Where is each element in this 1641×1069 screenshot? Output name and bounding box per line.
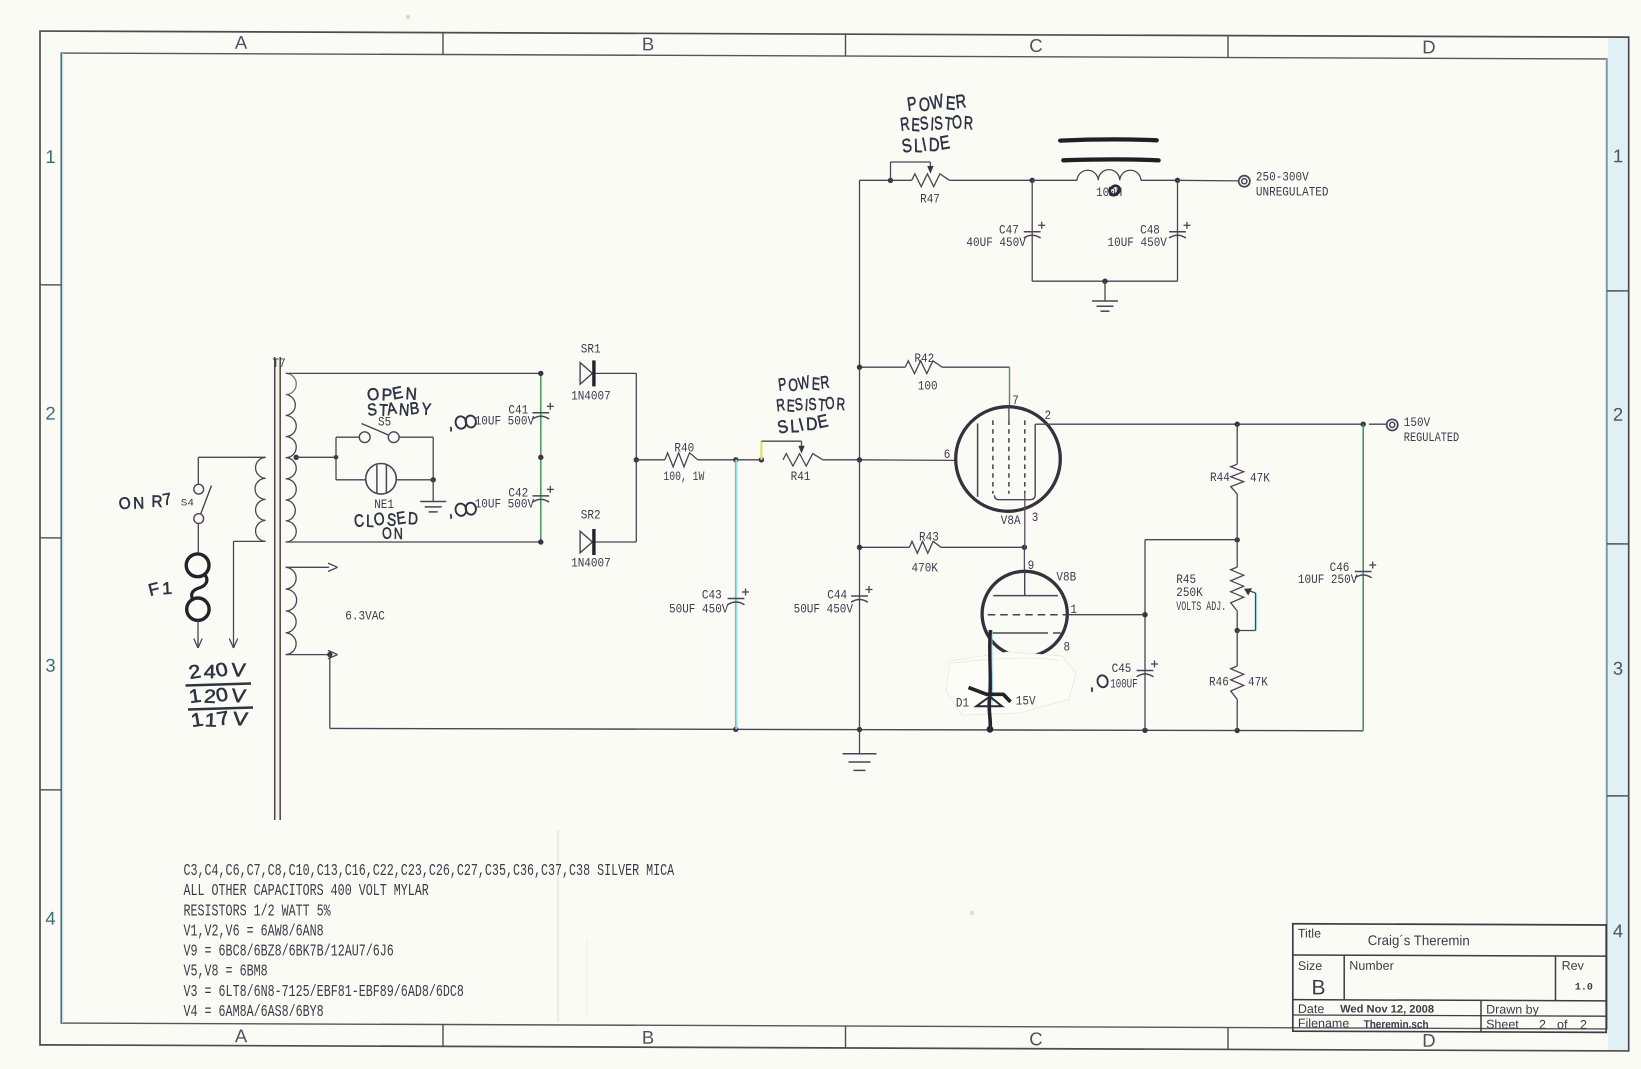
svg-text:100: 100 xyxy=(918,379,938,393)
svg-text:V3 = 6LT8/6N8-7125/EBF81-EBF89: V3 = 6LT8/6N8-7125/EBF81-EBF89/6AD8/6DC8 xyxy=(184,983,464,1002)
svg-text:1: 1 xyxy=(45,146,55,167)
svg-text:C45: C45 xyxy=(1112,662,1132,676)
svg-text:50UF 450V: 50UF 450V xyxy=(669,603,729,617)
svg-text:470K: 470K xyxy=(912,562,939,576)
svg-text:T7: T7 xyxy=(273,357,286,371)
svg-text:V9 = 6BC8/6BZ8/6BK7B/12AU7/6J6: V9 = 6BC8/6BZ8/6BK7B/12AU7/6J6 xyxy=(184,943,394,962)
svg-text:S4: S4 xyxy=(181,498,194,510)
svg-text:VOLTS ADJ.: VOLTS ADJ. xyxy=(1176,600,1226,614)
svg-text:C43: C43 xyxy=(702,589,722,603)
svg-text:7: 7 xyxy=(1012,394,1019,408)
svg-text:R40: R40 xyxy=(674,442,694,456)
svg-text:120V: 120V xyxy=(188,683,249,710)
svg-text:D1: D1 xyxy=(956,697,969,711)
svg-text:3: 3 xyxy=(45,655,55,676)
svg-text:8: 8 xyxy=(1064,641,1071,655)
svg-text:9: 9 xyxy=(1028,559,1035,573)
svg-text:B: B xyxy=(1312,976,1326,999)
svg-text:3: 3 xyxy=(1032,511,1039,525)
svg-text:A: A xyxy=(235,1025,248,1046)
svg-text:47K: 47K xyxy=(1250,472,1270,486)
svg-text:Craig´s Theremin: Craig´s Theremin xyxy=(1368,932,1470,948)
svg-text:C3,C4,C6,C7,C8,C10,C13,C16,C22: C3,C4,C6,C7,C8,C10,C13,C16,C22,C23,C26,C… xyxy=(184,862,675,881)
svg-text:1.0: 1.0 xyxy=(1575,983,1593,994)
svg-text:V8B: V8B xyxy=(1056,570,1076,584)
svg-text:250K: 250K xyxy=(1176,586,1203,600)
svg-text:R44: R44 xyxy=(1210,471,1230,485)
svg-text:2: 2 xyxy=(1539,1018,1546,1032)
svg-text:100, 1W: 100, 1W xyxy=(663,470,704,484)
svg-text:SR2: SR2 xyxy=(581,509,601,523)
svg-text:100UF: 100UF xyxy=(1110,678,1138,692)
svg-text:Number: Number xyxy=(1349,959,1393,973)
svg-text:Theremin.sch: Theremin.sch xyxy=(1364,1019,1429,1031)
svg-text:Date: Date xyxy=(1298,1002,1324,1016)
svg-text:V4 = 6AM8A/6AS8/6BY8: V4 = 6AM8A/6AS8/6BY8 xyxy=(184,1003,324,1022)
svg-text:150V: 150V xyxy=(1404,416,1431,430)
svg-text:2: 2 xyxy=(1613,404,1623,425)
svg-text:250-300V: 250-300V xyxy=(1256,170,1309,184)
svg-text:47K: 47K xyxy=(1248,675,1268,689)
svg-text:ALL OTHER CAPACITORS 400 VOLT: ALL OTHER CAPACITORS 400 VOLT MYLAR xyxy=(184,882,429,901)
svg-text:Filename: Filename xyxy=(1298,1016,1349,1030)
svg-text:1: 1 xyxy=(1613,145,1623,166)
svg-text:R41: R41 xyxy=(791,470,811,484)
svg-text:R45: R45 xyxy=(1176,573,1196,587)
svg-text:4: 4 xyxy=(1613,920,1623,941)
svg-text:B: B xyxy=(642,33,654,54)
svg-text:3: 3 xyxy=(1613,658,1623,679)
svg-text:4: 4 xyxy=(45,908,55,929)
svg-text:UNREGULATED: UNREGULATED xyxy=(1256,185,1329,199)
svg-text:2: 2 xyxy=(45,403,55,424)
svg-text:Size: Size xyxy=(1298,959,1322,973)
svg-text:Wed Nov 12, 2008: Wed Nov 12, 2008 xyxy=(1340,1003,1434,1015)
svg-text:STANBY: STANBY xyxy=(366,397,434,421)
svg-text:C: C xyxy=(1029,1028,1042,1049)
svg-text:10UF 450V: 10UF 450V xyxy=(1108,236,1168,250)
svg-text:6.3VAC: 6.3VAC xyxy=(345,610,385,624)
svg-text:D: D xyxy=(1422,36,1435,57)
svg-text:V5,V8 = 6BM8: V5,V8 = 6BM8 xyxy=(184,963,268,982)
svg-text:POWER: POWER xyxy=(776,371,831,397)
svg-text:Drawn by: Drawn by xyxy=(1486,1003,1540,1017)
svg-text:50UF 450V: 50UF 450V xyxy=(794,603,854,617)
svg-text:Sheet: Sheet xyxy=(1486,1017,1519,1031)
svg-text:B: B xyxy=(642,1027,654,1048)
svg-text:10UF 250V: 10UF 250V xyxy=(1298,573,1358,587)
svg-text:A: A xyxy=(235,32,248,53)
svg-text:R47: R47 xyxy=(920,192,940,206)
svg-text:15V: 15V xyxy=(1016,694,1036,708)
svg-text:6: 6 xyxy=(944,448,951,462)
svg-text:C44: C44 xyxy=(827,589,847,603)
svg-text:10UF 500V: 10UF 500V xyxy=(475,498,535,512)
svg-text:2: 2 xyxy=(1045,409,1052,423)
svg-text:1N4007: 1N4007 xyxy=(571,556,611,570)
svg-text:40UF 450V: 40UF 450V xyxy=(966,236,1026,250)
svg-text:RESISTORS 1/2 WATT 5%: RESISTORS 1/2 WATT 5% xyxy=(184,902,332,921)
svg-text:R43: R43 xyxy=(919,531,939,545)
svg-text:R46: R46 xyxy=(1209,675,1229,689)
svg-text:V8A: V8A xyxy=(1001,514,1021,528)
svg-text:Title: Title xyxy=(1298,926,1321,940)
svg-text:SR1: SR1 xyxy=(581,342,601,356)
svg-text:V1,V2,V6 = 6AW8/6AN8: V1,V2,V6 = 6AW8/6AN8 xyxy=(184,922,324,941)
svg-text:REGULATED: REGULATED xyxy=(1404,431,1459,445)
svg-text:of: of xyxy=(1557,1018,1568,1032)
svg-text:1N4007: 1N4007 xyxy=(571,389,611,403)
svg-text:2: 2 xyxy=(1580,1018,1587,1032)
svg-text:D: D xyxy=(1422,1030,1435,1051)
svg-text:C: C xyxy=(1029,35,1042,56)
svg-text:10UF 500V: 10UF 500V xyxy=(475,414,535,428)
svg-text:R42: R42 xyxy=(914,352,934,366)
svg-text:Rev: Rev xyxy=(1562,959,1585,973)
